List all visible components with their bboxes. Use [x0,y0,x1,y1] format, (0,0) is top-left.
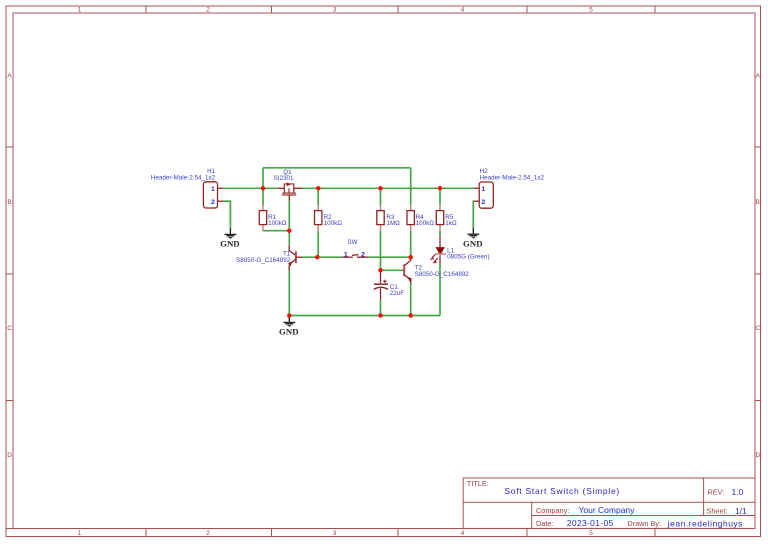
junction node dots [261,186,443,318]
svg-text:100kΩ: 100kΩ [268,220,287,227]
svg-text:4: 4 [461,7,465,14]
svg-text:1kΩ: 1kΩ [445,220,457,227]
svg-text:A: A [756,72,761,79]
node: R2 top [316,186,321,191]
connector H2 [474,168,545,208]
node: input/R1/top-wire [261,186,266,191]
svg-text:1.0: 1.0 [732,487,744,497]
svg-text:2: 2 [481,199,485,206]
svg-text:C: C [7,325,12,332]
node: R5 top [438,186,443,191]
svg-text:2: 2 [361,252,365,259]
wire: R2 bottom to T1 base node [317,231,319,257]
svg-text:1: 1 [78,530,82,537]
wire: main net right of Q1 to H2 pin1 [302,187,474,189]
svg-text:Drawn By:: Drawn By: [627,519,661,528]
wire: top wire down to R4 [410,168,412,205]
wire: SW pin2 to node [368,256,411,258]
svg-text:B: B [7,199,11,206]
svg-text:Date:: Date: [536,519,553,528]
wire: ground rail [289,315,440,317]
svg-text:Company:: Company: [536,506,569,515]
wire: H1 pin1 to main net [223,187,277,189]
node: ground rail left [287,313,292,318]
svg-text:1/1: 1/1 [735,506,747,516]
svg-text:Header-Male-2.54_1x2: Header-Male-2.54_1x2 [480,174,545,181]
wire: Q1 gate down to T1 collector [288,201,290,245]
capacitor C1 22uF [374,270,405,300]
svg-text:REV:: REV: [708,488,725,497]
svg-text:5: 5 [589,7,593,14]
connector H1 [151,168,224,208]
svg-text:1: 1 [481,186,485,193]
resistor R4 100kΩ [407,205,434,231]
svg-text:1: 1 [344,252,348,259]
wire: node to T2 base [381,269,403,271]
wire: T1 emitter down to ground rail [288,271,290,316]
node: R3 top [378,186,383,191]
wire: R1 bottom elbow to gate line [263,230,289,232]
wire: LED cathode to ground rail [439,264,441,316]
svg-text:Your Company: Your Company [579,505,636,515]
node: C1 bottom rail [378,313,383,318]
svg-text:Sheet:: Sheet: [707,506,728,515]
wire: R3 bottom to C1/T2 base node [380,231,382,270]
svg-text:jean.redelinghuys: jean.redelinghuys [667,518,743,528]
wire: R3 top [380,188,382,205]
svg-text:Header-Male-2.54_1x2: Header-Male-2.54_1x2 [151,174,216,181]
wire: R2 top [317,188,319,205]
svg-text:B: B [756,199,760,206]
svg-text:1MΩ: 1MΩ [386,220,400,227]
node: R4 bottom / T2 collector [408,255,413,260]
transistor T1 S8050 [236,245,302,271]
node: T1 base / R2 bottom [315,255,320,260]
svg-text:SI2301: SI2301 [274,175,294,182]
svg-text:D: D [755,452,760,459]
resistor R2 100kΩ [315,205,343,231]
ground (H2) [463,228,483,249]
svg-text:GND: GND [220,238,240,248]
resistor R3 1MΩ [377,205,400,231]
svg-text:GND: GND [279,327,299,337]
wire: R5 to LED [439,231,441,236]
svg-text:3: 3 [333,7,337,14]
ground (rail) [279,316,299,337]
wire: R5 top [439,188,441,205]
svg-text:GND: GND [463,238,483,248]
ground (H1) [220,228,240,249]
svg-text:A: A [7,72,12,79]
op Q1 mosfet SI2301 [274,169,302,201]
svg-text:0805G (Green): 0805G (Green) [447,254,489,261]
svg-text:Soft Start Switch (Simple): Soft Start Switch (Simple) [504,486,620,496]
switch SW [342,239,368,259]
title block [463,478,755,528]
node: C1 top / T2 base [378,268,383,273]
svg-text:100kΩ: 100kΩ [324,220,343,227]
wire: vertical at R1/top-wire branch [262,168,264,205]
svg-text:S8050-G_C164892: S8050-G_C164892 [415,271,470,278]
svg-text:S8050-G_C164892: S8050-G_C164892 [236,257,291,264]
svg-text:D: D [7,452,12,459]
svg-text:2: 2 [206,530,210,537]
resistor R5 1kΩ [436,205,457,231]
wire: T1 base node to SW pin1 [302,256,342,258]
svg-text:100kΩ: 100kΩ [416,220,435,227]
svg-text:2: 2 [206,7,210,14]
node: R1 bottom / Q1 gate [287,228,292,233]
wire: H1 pin2 to GND [223,201,230,228]
svg-text:22uF: 22uF [390,290,405,297]
wire: C1 bottom to ground rail [380,300,382,316]
svg-text:5: 5 [589,530,593,537]
svg-text:C: C [755,325,760,332]
transistor T2 S8050 [402,257,469,284]
svg-text:2: 2 [211,199,215,206]
wire: T2 emitter down to ground rail [410,284,412,316]
svg-text:TITLE:: TITLE: [467,479,489,488]
resistor R1 100kΩ [259,205,286,231]
wire: H2 pin2 to GND [472,201,475,227]
svg-text:1: 1 [211,186,215,193]
wire: R4 bottom to node [410,231,412,257]
svg-text:3: 3 [333,530,337,537]
svg-text:2023-01-05: 2023-01-05 [567,518,614,528]
wire: top wire horizontal [263,167,411,169]
node: T2 emitter rail [408,313,413,318]
LED L1 0805G [430,238,490,264]
svg-text:4: 4 [461,530,465,537]
svg-text:1: 1 [78,7,82,14]
svg-text:SW: SW [347,239,357,246]
